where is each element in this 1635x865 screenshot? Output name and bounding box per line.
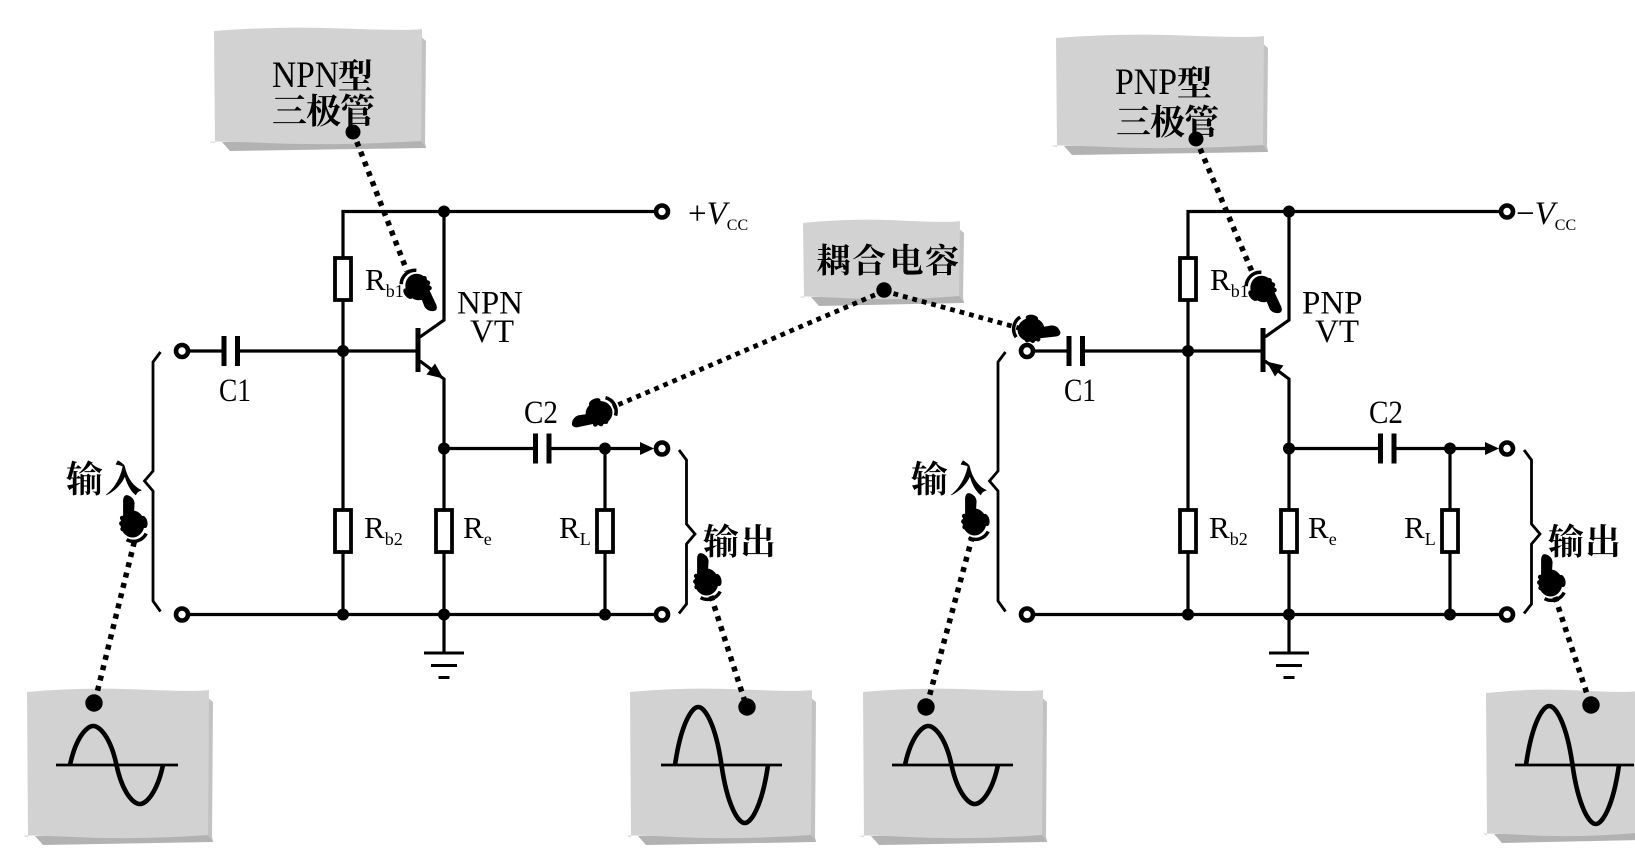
- callout box: coupling capacitor label: [800, 220, 964, 306]
- sine-wave box: input signal (left circuit): [24, 689, 213, 845]
- arrow: output right (PNP): [1485, 442, 1499, 455]
- hand icon: points at C2 left: [567, 394, 618, 433]
- node: top rail / collector junction right (PNP): [1283, 206, 1295, 218]
- node: base junction left (NPN): [337, 345, 349, 357]
- node: top rail / collector junction left (NPN): [438, 206, 450, 218]
- wire: base row right (PNP): [1035, 349, 1262, 352]
- terminal: input top right (PNP): [1021, 345, 1033, 357]
- capacitor C2 left (NPN): [536, 434, 550, 464]
- hand icon: points at output left: [693, 553, 723, 599]
- sine-wave box: output signal (right circuit): [1483, 690, 1635, 843]
- terminal: Vcc supply left (NPN): [656, 206, 668, 218]
- brace: output port left (NPN): [679, 450, 695, 614]
- hand icon: points at input right: [961, 493, 991, 539]
- ground symbol left (NPN): [424, 615, 464, 678]
- resistor Re right (PNP): [1287, 449, 1290, 615]
- svg-text:C1: C1: [219, 373, 251, 409]
- wire: base row left (NPN): [190, 349, 417, 352]
- wire: Rb1 to base node right (PNP): [1186, 300, 1189, 351]
- terminal: input top left (NPN): [176, 345, 188, 357]
- resistor Rb1 right (PNP): [1180, 258, 1196, 300]
- hand icon: points at input left: [119, 495, 149, 541]
- pointer line: NPN box to transistor: [346, 125, 408, 272]
- node: C2/RL junction right (PNP): [1444, 443, 1456, 455]
- hand icon: points at C1 right: [1012, 310, 1061, 344]
- callout box: NPN type transistor label: [210, 28, 426, 151]
- resistor RL right (PNP): [1448, 449, 1451, 615]
- node: RL ground junction right (PNP): [1444, 609, 1456, 621]
- node: Rb2 ground junction right (PNP): [1182, 609, 1194, 621]
- brace: input port right (PNP): [990, 352, 1006, 612]
- pointer line: input sine box to input brace (left): [85, 539, 135, 712]
- node: Re ground junction left (NPN): [438, 609, 450, 621]
- transistor VT (NPN): [418, 212, 444, 449]
- callout box: PNP type transistor label: [1052, 35, 1268, 155]
- hand icon: points at PNP transistor: [1240, 268, 1286, 322]
- node: RL ground junction left (NPN): [599, 609, 611, 621]
- sine-wave box: input signal (right circuit): [860, 689, 1047, 845]
- pointer line: PNP box to transistor: [1189, 132, 1254, 275]
- node: base junction right (PNP): [1182, 345, 1194, 357]
- terminal: input bottom right (PNP): [1021, 609, 1033, 621]
- wire: ground rail left (NPN): [190, 613, 654, 616]
- wire: +Vcc top rail left (NPN): [343, 212, 654, 259]
- transistor VT (PNP): [1263, 212, 1289, 449]
- resistor Rb1 left (NPN): [335, 258, 351, 300]
- terminal: input bottom left (NPN): [176, 609, 188, 621]
- svg-text:C1: C1: [1064, 373, 1096, 409]
- label: input (shuru) left (NPN): [66, 460, 141, 495]
- svg-text:NPN: NPN: [272, 55, 339, 96]
- resistor Re left (NPN): [442, 449, 445, 615]
- svg-text:VT: VT: [470, 314, 514, 350]
- ground symbol right (PNP): [1269, 615, 1309, 678]
- svg-text:C2: C2: [524, 395, 558, 431]
- brace: output port right (PNP): [1524, 450, 1540, 614]
- capacitor C2 right (PNP): [1381, 434, 1395, 464]
- hand icon: points at output right: [1537, 554, 1567, 600]
- label: output (shuchu) left (NPN): [703, 523, 773, 557]
- node: emitter junction right (PNP): [1283, 443, 1295, 455]
- wire: +Vcc top rail right (PNP): [1188, 212, 1499, 259]
- pointer line: coupling box to C2 (left): [613, 282, 892, 407]
- label: output (shuchu) right (PNP): [1548, 523, 1618, 557]
- pointer line: output brace to sine box (left): [711, 596, 756, 716]
- arrow: output left (NPN): [640, 442, 654, 455]
- capacitor C1 left (NPN): [224, 336, 238, 366]
- brace: input port left (NPN): [145, 352, 161, 612]
- svg-text:VT: VT: [1315, 314, 1359, 350]
- label: input (shuru) right (PNP): [911, 460, 986, 495]
- terminal: output bottom left (NPN): [656, 609, 668, 621]
- wire: emitter row to C2 left (NPN): [444, 447, 640, 450]
- wire: ground rail right (PNP): [1035, 613, 1499, 616]
- wire: emitter row to C2 right (PNP): [1289, 447, 1485, 450]
- resistor Rb2 right (PNP): [1186, 351, 1189, 615]
- node: Rb2 ground junction left (NPN): [337, 609, 349, 621]
- pointer line: coupling box to C1 (right): [884, 291, 1019, 328]
- capacitor C1 right (PNP): [1069, 336, 1083, 366]
- terminal: output top left (NPN): [656, 443, 668, 455]
- hand icon: points at NPN transistor: [395, 266, 441, 320]
- pointer line: output brace to sine box (right): [1555, 597, 1600, 714]
- resistor Rb2 left (NPN): [341, 351, 344, 615]
- terminal: output bottom right (PNP): [1501, 609, 1513, 621]
- sine-wave box: output signal (left circuit): [627, 689, 816, 845]
- wire: Rb1 to base node left (NPN): [341, 300, 344, 351]
- svg-text:C2: C2: [1369, 395, 1403, 431]
- terminal: Vcc supply right (PNP): [1501, 206, 1513, 218]
- svg-text:PNP: PNP: [1115, 62, 1177, 103]
- node: Re ground junction right (PNP): [1283, 609, 1295, 621]
- resistor RL left (NPN): [603, 449, 606, 615]
- terminal: output top right (PNP): [1501, 443, 1513, 455]
- pointer line: input sine box to input brace (right): [917, 538, 972, 716]
- node: C2/RL junction left (NPN): [599, 443, 611, 455]
- node: emitter junction left (NPN): [438, 443, 450, 455]
